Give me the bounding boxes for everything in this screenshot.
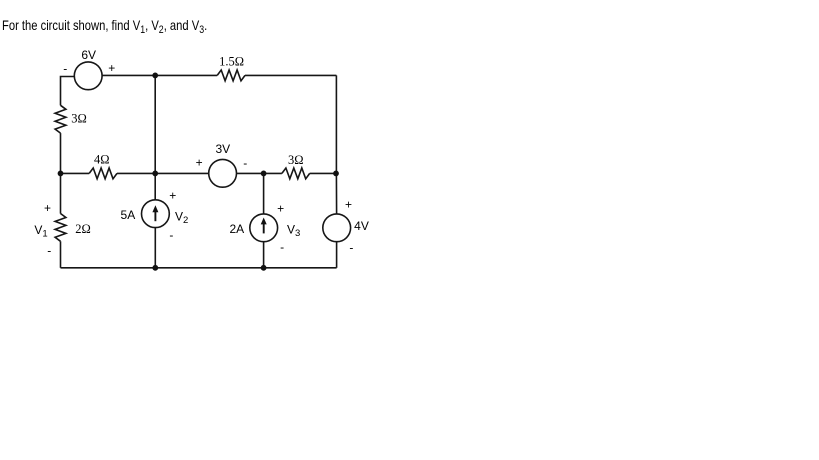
svg-text:-: - [169, 228, 173, 242]
node junction dot middle-left [58, 171, 64, 177]
wire top-left stub and upper left rail [61, 77, 75, 106]
current source 5A [142, 200, 170, 228]
resistor 3ohm (left vertical) [55, 105, 66, 133]
svg-text:3Ω: 3Ω [71, 112, 87, 126]
svg-text:2A: 2A [229, 222, 244, 236]
svg-text:+: + [277, 202, 284, 216]
5A arrow head [152, 205, 158, 212]
wire mid-right rail lower [263, 242, 265, 268]
svg-text:5A: 5A [121, 208, 136, 222]
2A arrow head [261, 218, 267, 225]
node junction dot middle-right [261, 171, 267, 177]
wire middle rail seg 4 [310, 172, 337, 174]
wire left rail lower [60, 241, 62, 267]
node junction dot bottom-left [152, 265, 158, 271]
voltage source 3V [209, 159, 237, 187]
resistor 3ohm (right horizontal) [282, 168, 310, 179]
svg-text:4Ω: 4Ω [94, 152, 110, 166]
svg-text:+: + [44, 201, 51, 215]
svg-text:-: - [243, 156, 247, 170]
svg-text:V2: V2 [175, 209, 188, 226]
wire top rail left of 1.5ohm [102, 74, 217, 76]
svg-text:2Ω: 2Ω [75, 222, 91, 236]
wire mid-left rail upper [154, 75, 156, 199]
2A arrow shaft [263, 223, 265, 233]
resistor 4ohm (middle horizontal) [89, 168, 117, 179]
svg-text:6V: 6V [81, 48, 96, 62]
svg-text:V3: V3 [287, 223, 300, 240]
svg-text:3Ω: 3Ω [288, 153, 304, 167]
node junction dot middle-far-right [333, 171, 339, 177]
wire mid-left rail lower [154, 228, 156, 268]
svg-text:-: - [280, 240, 284, 254]
current source 2A [250, 214, 278, 242]
svg-text:+: + [108, 61, 115, 75]
wire right rail lower [336, 242, 338, 268]
svg-text:-: - [47, 244, 51, 258]
wire middle rail seg 3 [237, 172, 282, 174]
wire left rail middle [60, 133, 62, 214]
wire middle rail seg 1 [61, 172, 90, 174]
svg-text:-: - [349, 240, 353, 254]
svg-text:+: + [196, 156, 203, 170]
node junction dot middle-center [152, 171, 158, 177]
5A arrow shaft [154, 211, 156, 221]
svg-text:4V: 4V [354, 219, 369, 233]
title text [2, 18, 207, 32]
wire bottom rail [61, 267, 337, 269]
svg-text:-: - [63, 62, 67, 76]
svg-text:3V: 3V [215, 142, 230, 156]
voltage source 4V [323, 214, 351, 242]
resistor 1.5ohm (top horizontal) [217, 70, 245, 81]
wire mid-right rail upper [263, 173, 265, 214]
svg-text:1.5Ω: 1.5Ω [219, 55, 244, 69]
node junction dot bottom-right [261, 265, 267, 271]
svg-text:V1: V1 [34, 223, 47, 240]
voltage source 6V [74, 62, 102, 90]
svg-text:+: + [345, 197, 352, 211]
node junction dot top [152, 73, 158, 79]
wire middle rail seg 2 [117, 172, 209, 174]
resistor 2ohm (left vertical) [55, 214, 66, 242]
svg-text:+: + [169, 189, 176, 203]
wire right rail upper [335, 75, 337, 214]
wire top rail right of 1.5ohm [245, 74, 336, 76]
